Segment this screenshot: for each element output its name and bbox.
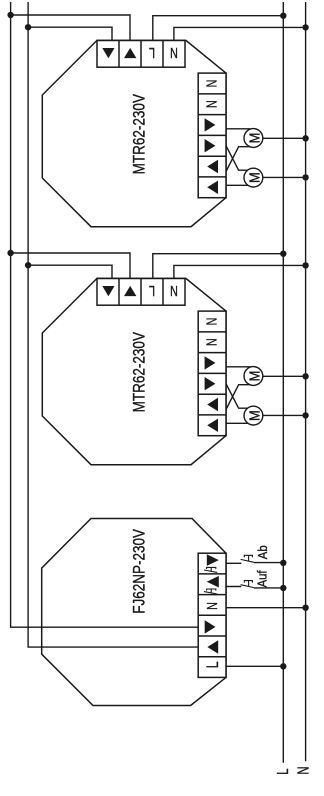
terminal arrow right ch1 (205, 356, 216, 369)
actuator U1 MTR62-230V (7, 12, 308, 227)
wire bus (down-command) from FJ62NP terminal to roller actuators (11, 2, 199, 627)
terminal arrow up (Auf) with button icon (207, 576, 219, 588)
octagon housing U2 (42, 278, 226, 464)
svg-text:N: N (170, 282, 178, 299)
svg-text:Ab: Ab (255, 545, 270, 559)
wire to U1 terminal DOWN (11, 15, 130, 41)
svg-text:L: L (204, 661, 222, 668)
wire motor M1 to bus N (263, 137, 306, 139)
terminal arrow left ch2 (207, 181, 218, 194)
junction on up-bus (25, 262, 31, 268)
svg-text:N: N (203, 338, 220, 346)
terminal arrow left ch2 (207, 419, 218, 432)
svg-text:M: M (245, 133, 262, 144)
relay U3 FJ62NP-230V (42, 519, 309, 706)
wire to U2 terminal DOWN (11, 253, 130, 279)
wire re-entry up-bus to terminal (42, 646, 199, 648)
svg-text:M: M (245, 410, 262, 421)
wire U3 N to bus N (226, 607, 306, 609)
svg-text:MTR62-230V: MTR62-230V (130, 93, 149, 174)
svg-text:Auf: Auf (255, 570, 270, 588)
terminal DOWN symbol (102, 48, 114, 58)
wire U1 terminal N to bus N (174, 27, 306, 40)
pushbutton S2 Auf (241, 581, 254, 588)
motor M3 (244, 367, 263, 386)
wire U2 terminal N to bus N (174, 265, 306, 278)
svg-text:N: N (204, 602, 221, 610)
terminal arrow right ch2 (205, 377, 216, 390)
wire ch2 up to motor M4 (crossing) (226, 384, 248, 409)
terminal arrow left ch1 (207, 398, 218, 411)
wire motor M4 to bus N (263, 414, 306, 416)
junction on down-bus (7, 250, 13, 256)
wire ch1 down to motor M3 (crossing) (226, 385, 250, 410)
svg-text:L: L (149, 44, 155, 61)
terminal column U2 (198, 311, 226, 436)
svg-text:L: L (149, 282, 155, 299)
svg-text:L: L (273, 768, 292, 774)
svg-text:N: N (170, 44, 178, 61)
junction on bus L (280, 251, 286, 257)
actuator U2 MTR62-230V (7, 250, 308, 465)
wire ch2 down to motor M4 (226, 422, 248, 424)
wire re-entry down-bus to terminal (42, 626, 199, 628)
octagon housing U3 (42, 519, 226, 706)
terminal arrow right ch1 (205, 118, 216, 131)
wire ch2 down to motor M2 (226, 184, 248, 186)
wire U3 L to bus L (226, 665, 283, 667)
octagon housing U1 (42, 40, 226, 226)
terminal row U2 (97, 279, 185, 306)
terminal column U1 (198, 73, 226, 198)
wire bus (up-command) from FJ62NP terminal to roller actuators (28, 2, 198, 647)
terminal DOWN symbol (102, 286, 114, 296)
svg-text:FJ62NP-230V: FJ62NP-230V (130, 528, 149, 613)
wire to U2 terminal UP (28, 265, 112, 278)
wire U1 terminal L to bus L (153, 16, 283, 41)
wire motor M2 to bus N (263, 176, 306, 178)
terminal arrow right (down output) (205, 620, 216, 633)
svg-text:N: N (203, 80, 220, 88)
terminal arrow right ch2 (205, 139, 216, 152)
terminal UP symbol (124, 286, 136, 296)
wire motor M3 to bus N (263, 375, 306, 377)
terminal arrow down (Ab) with button icon (207, 554, 219, 566)
junction on up-bus (25, 24, 31, 30)
svg-text:N: N (294, 767, 313, 775)
wire bus N (neutral) (305, 2, 307, 761)
wire ch1 down to motor M1 (crossing) (226, 147, 250, 172)
terminal arrow left ch1 (207, 160, 218, 173)
junction on bus L (280, 13, 286, 19)
svg-text:N: N (203, 318, 220, 326)
wire ch1 up to motor M1 (226, 128, 250, 130)
wire bus L (phase) (282, 2, 284, 763)
terminal arrow left (up output) (207, 640, 218, 653)
svg-text:M: M (245, 172, 262, 183)
wire U2 terminal L to bus L (153, 254, 283, 279)
pushbutton S1 Ab (241, 555, 254, 562)
junction on down-bus (7, 12, 13, 18)
motor M4 (244, 406, 263, 425)
wire ch2 up to motor M2 (crossing) (226, 146, 248, 171)
terminal UP symbol (124, 48, 136, 58)
terminal row U1 (97, 41, 185, 68)
motor M2 (244, 168, 263, 187)
wire to U1 terminal UP (28, 27, 112, 40)
motor M1 (244, 129, 263, 148)
wire ch1 up to motor M3 (226, 366, 250, 368)
wire Ab button to bus L (226, 562, 283, 565)
terminal column U3 (198, 553, 226, 677)
svg-text:M: M (245, 371, 262, 382)
junction on bus N (302, 262, 308, 268)
svg-text:N: N (203, 100, 220, 108)
svg-text:MTR62-230V: MTR62-230V (130, 331, 149, 412)
wire Auf button to bus L (226, 587, 283, 588)
junction on bus N (302, 24, 308, 30)
